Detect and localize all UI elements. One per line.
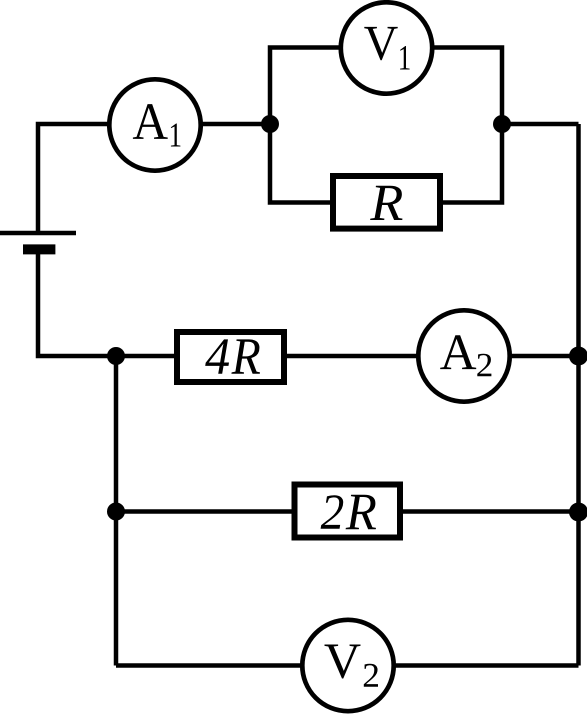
wire: battery negative terminal down to 4R row [38, 249, 116, 356]
wire: A1 output to node A [158, 122, 270, 127]
wire: 2R row [116, 509, 579, 514]
wire: node B to right rail [502, 122, 579, 127]
node D (junction dot) [569, 347, 587, 366]
resistor R [333, 176, 440, 229]
wire: voltmeter V1 branch (top of parallel loop) [270, 48, 502, 125]
wire: battery positive terminal up to ammeter A1 row [38, 124, 158, 231]
node A (junction dot) [261, 115, 279, 133]
resistor 2R [295, 485, 401, 538]
ammeter A2 [418, 310, 509, 401]
node E (junction dot) [107, 503, 125, 521]
battery positive plate (long) [0, 231, 76, 235]
wire: left rail [114, 356, 119, 666]
resistor 4R [177, 332, 284, 382]
wire: right rail [576, 124, 581, 666]
wire: 4R / A2 row [116, 354, 579, 359]
node B (junction dot) [493, 115, 511, 133]
voltmeter V2 [302, 620, 393, 711]
ammeter A1 [109, 79, 200, 170]
battery negative plate (short thick) [23, 244, 55, 254]
wire: bottom row through V2 [116, 663, 579, 668]
voltmeter V1 [341, 2, 432, 93]
node F (junction dot) [569, 503, 587, 522]
node C (junction dot) [107, 347, 125, 365]
wire: resistor R branch (bottom of parallel loop) [270, 124, 502, 203]
